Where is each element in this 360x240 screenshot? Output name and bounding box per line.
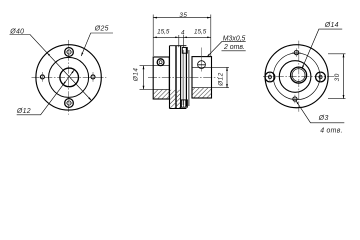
right view outer circle [265,45,328,108]
section left hub body [153,57,169,99]
svg-text:2 отв.: 2 отв. [223,44,245,51]
left view bore circle O12 [60,68,79,87]
right view top hole [292,48,300,56]
section top nut [182,48,187,54]
left view horizontal centerline [32,76,107,78]
section axis centerline [148,76,218,78]
svg-text:4: 4 [181,30,185,37]
section right hub bore line top [192,66,212,68]
left view top tapped hole M3 [64,48,74,57]
label O40 with leader [9,28,91,100]
right view hub circle [279,61,311,93]
dim 30 right view [328,54,346,99]
left view vertical centerline [68,40,70,115]
label O25 with leader [81,25,113,56]
svg-text:15,5: 15,5 [157,28,170,35]
right view bore outer circle [291,67,307,83]
label M3x0.5 2 holes [207,36,246,57]
dim O12 section right [212,67,230,87]
svg-text:35: 35 [179,12,187,19]
svg-text:4 отв.: 4 отв. [320,128,343,135]
label O3 4 holes with leader [296,101,344,135]
svg-text:Ø25: Ø25 [94,25,109,32]
left view bottom tapped hole M3 [64,99,74,108]
section disc pack outline [170,46,187,109]
right view horizontal centerline [263,76,335,78]
svg-text:Ø12: Ø12 [217,72,224,87]
svg-text:Ø14: Ø14 [132,68,139,83]
section bottom nut [181,100,187,107]
section right hub set screw [198,61,206,69]
right view bore inner circle [292,69,305,82]
section right hub body [192,57,212,98]
right view right ear [316,72,326,83]
right view bottom hole [291,95,299,103]
svg-text:15,5: 15,5 [194,28,207,35]
section disc2 [186,48,189,107]
left view middle circle O25 [49,57,89,97]
right view left ear [265,72,275,83]
left view left small hole [40,72,44,82]
label O12 with leader [16,70,74,115]
right view vertical centerline [298,41,300,112]
section right hub bore line bottom [192,87,212,89]
section left hub bore line bottom [153,88,169,90]
section right hub bottom hatch [192,88,211,98]
svg-text:Ø12: Ø12 [16,108,31,115]
dim 15.5 / 4 / 15.5 [153,28,211,47]
section right hub set screw hole centerline [201,48,203,72]
svg-text:Ø3: Ø3 [318,115,329,122]
svg-text:30: 30 [334,73,341,81]
svg-text:Ø14: Ø14 [324,22,339,29]
section left hub bottom hatch [154,90,169,99]
section left hub bore line top [153,65,169,67]
dim O14 section left [132,66,153,90]
left view outer circle O40 [36,45,101,110]
dim 35 [153,12,211,56]
section disc1 bottom hatch [170,90,181,108]
left view right small hole [91,72,95,82]
right view bolt circle [273,53,320,100]
section left hub radial hole circle [157,59,164,66]
label O14 right view with leader [302,22,342,69]
